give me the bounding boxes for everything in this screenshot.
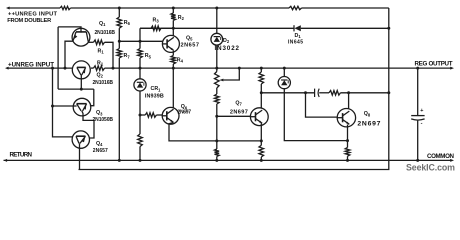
- svg-text:D1: D1: [295, 33, 302, 39]
- svg-text:IN939B: IN939B: [145, 93, 164, 99]
- label Q2 type: [93, 80, 114, 86]
- label CR1 type: [145, 93, 164, 99]
- wire D2 bottom lead: [216, 46, 218, 69]
- transistor Q3: [73, 98, 91, 116]
- junction Q2/Q3 base tie: [80, 88, 83, 91]
- wire R1 upper to junction: [105, 42, 114, 68]
- svg-text:D2: D2: [223, 38, 230, 44]
- junction V3 Q3 base: [51, 105, 54, 108]
- capacitor (comp) symbol: [315, 89, 320, 97]
- wire R5 from rail2: [139, 28, 141, 48]
- wire R4 bottom: [172, 64, 174, 68]
- junction R7 bottom: [118, 159, 121, 162]
- junction CR1 resistor bottom: [139, 159, 142, 162]
- label CR1: [151, 86, 162, 92]
- junction R2 top: [172, 7, 175, 10]
- label Q7: [235, 100, 242, 106]
- junction R1s: [112, 67, 115, 70]
- resistor R9 (unlabeled): [215, 94, 220, 104]
- label Q3 type: [93, 117, 114, 123]
- resistor R3: [151, 26, 161, 31]
- svg-text:R1: R1: [97, 60, 104, 66]
- wire R8 top lead: [216, 68, 218, 71]
- junction Q8 emitter / D3 line: [346, 139, 349, 142]
- wire Q2 base down: [80, 75, 82, 90]
- junction R8 wiper tie: [238, 67, 241, 70]
- svg-text:RETURN: RETURN: [10, 151, 33, 158]
- wire Q7 emitter resistor top: [260, 141, 262, 145]
- junction comp line left: [260, 91, 263, 94]
- label ++unreg input: [8, 11, 58, 17]
- zener D2: [211, 33, 223, 45]
- resistor R6: [117, 17, 122, 28]
- wire R10 bottom: [216, 156, 218, 160]
- label return: [10, 151, 33, 158]
- wire D3 top lead: [283, 68, 285, 76]
- wire Q7 base line: [217, 115, 251, 117]
- transistor Q8: [337, 109, 355, 127]
- junction R5/CR1: [139, 67, 142, 70]
- wire Q7 emitter: [260, 123, 262, 141]
- label R3: [153, 18, 160, 24]
- junction R6 top: [118, 7, 121, 10]
- wire Q2 emitter to R1: [91, 67, 94, 69]
- zener D3 (unlabeled): [278, 77, 290, 89]
- junction D2/R8: [215, 67, 218, 70]
- label Q7 type: [230, 109, 248, 115]
- svg-text:2N697: 2N697: [230, 109, 248, 115]
- wire R3 left: [140, 27, 151, 29]
- capacitor (output) plates: [411, 116, 424, 121]
- transistor Q5: [162, 35, 179, 52]
- transistor Q7: [250, 108, 268, 126]
- wire R5 to reg rail: [139, 58, 141, 68]
- svg-text:++UNREG INPUT: ++UNREG INPUT: [8, 11, 58, 17]
- wire return rail: [4, 159, 452, 161]
- svg-text:R2: R2: [178, 15, 185, 21]
- diode D1 symbol: [294, 25, 301, 31]
- arrowhead return left: [4, 159, 8, 162]
- svg-text:+: +: [420, 108, 423, 114]
- svg-text:Q8: Q8: [364, 111, 371, 117]
- resistor (unlabeled) Q8 emitter: [345, 148, 350, 157]
- wire R6 top: [118, 8, 120, 17]
- arrowhead ++unreg input: [6, 7, 10, 10]
- label Q8: [364, 111, 371, 117]
- svg-text:Q4: Q4: [96, 141, 103, 147]
- wire comp resistor to Q8 collector: [341, 92, 389, 94]
- wire CR1 top lead: [139, 68, 141, 79]
- wire comp cap to resistor: [319, 92, 329, 94]
- wire Q1 emitter to V2: [65, 41, 73, 68]
- wire Q6 collector: [172, 68, 174, 108]
- label R7: [124, 53, 131, 59]
- svg-text:2N657: 2N657: [93, 148, 108, 154]
- svg-text:2N1016B: 2N1016B: [93, 80, 114, 86]
- wire +unreg input: [8, 67, 73, 69]
- label from doubler: [7, 18, 51, 24]
- junction rail2 right corner: [387, 27, 390, 30]
- wire Q8 emitter: [347, 125, 349, 141]
- junction Q8 collector: [347, 91, 350, 94]
- svg-text:R5: R5: [145, 53, 152, 59]
- wire V1: [57, 27, 59, 89]
- svg-text:SeekIC.com: SeekIC.com: [406, 163, 455, 173]
- label reg output: [415, 60, 453, 67]
- wire divider down: [216, 116, 218, 149]
- junction CR1 / Q6 base / resistor: [139, 114, 142, 117]
- resistor R2: [171, 13, 176, 20]
- resistor (unlabeled) comp: [329, 91, 341, 96]
- transistor Q6: [162, 107, 179, 124]
- junction Q6 emitter / R column: [215, 139, 218, 142]
- label Q1 type: [95, 30, 116, 36]
- wire R8 to R9: [216, 88, 218, 94]
- wire R6 to base node: [118, 28, 120, 41]
- wire output cap bottom lead: [417, 121, 419, 161]
- wire comp line left: [261, 92, 314, 94]
- junction Q5 collector / R2: [172, 27, 175, 30]
- svg-text:Q3: Q3: [96, 110, 103, 116]
- label Q5: [186, 35, 193, 41]
- label Q6: [181, 104, 188, 110]
- transistor Q1: [72, 28, 90, 46]
- label R6: [124, 20, 131, 26]
- junction Q6 emitter / Q7 emitter: [260, 139, 263, 142]
- wire CR1 bottom lead: [139, 91, 141, 115]
- junction output capacitor top: [416, 67, 419, 70]
- label R4: [177, 57, 184, 63]
- label D1 type: [288, 40, 303, 46]
- wire Q1 collector to R1 upper: [88, 41, 93, 43]
- svg-text:IN645: IN645: [288, 40, 303, 46]
- resistor R7: [117, 49, 122, 59]
- resistor R1 (upper): [94, 40, 105, 45]
- resistor R4: [171, 55, 176, 64]
- junction R4/Q6 collector: [172, 67, 175, 70]
- transistor Q2: [72, 61, 90, 79]
- junction Q1 collector tie: [64, 67, 67, 70]
- svg-text:R6: R6: [124, 20, 131, 26]
- svg-text:REG OUTPUT: REG OUTPUT: [415, 60, 453, 67]
- wire Q8 collector lead: [348, 93, 350, 109]
- resistor R10 (unlabeled): [215, 149, 220, 156]
- resistor R1 (lower): [94, 66, 105, 71]
- capacitor minus mark: [421, 121, 423, 127]
- junction D2 top: [215, 7, 218, 10]
- wire Q7 collector resistor top: [260, 68, 262, 72]
- wire Q5 collector: [172, 28, 174, 36]
- wire Q6 base resistor left: [140, 114, 145, 116]
- wire top rail middle: [71, 7, 290, 9]
- resistor (unlabeled) Q7 emitter: [259, 145, 264, 157]
- junction Q7 emitter resistor bottom: [260, 159, 263, 162]
- label Q4 type: [93, 148, 108, 154]
- label Q6 type: [178, 109, 192, 115]
- svg-text:Q1: Q1: [99, 21, 106, 27]
- wire rail2 left: [140, 27, 294, 29]
- wire D3 bottom lead: [284, 89, 347, 141]
- label D2 type: [215, 45, 240, 52]
- wire Q4 emitter down to bottom loop: [79, 143, 81, 169]
- wire R3 right: [161, 27, 173, 29]
- wire ++unreg input top rail left: [9, 7, 60, 9]
- wire Q7 emitter resistor bottom: [260, 157, 262, 160]
- wire Q8 base: [306, 93, 338, 117]
- wire Q3 collector: [90, 89, 94, 106]
- wire rail2 right: [301, 27, 389, 29]
- wire R2 top: [172, 8, 174, 13]
- svg-text:IN3022: IN3022: [215, 45, 240, 52]
- resistor (unlabeled) top rail left: [60, 6, 71, 9]
- wire Q3 base from V3: [53, 105, 77, 107]
- wire Q8 emitter resistor top: [347, 141, 349, 148]
- svg-text:Q7: Q7: [235, 100, 242, 106]
- wire Q7 collector resistor bottom: [260, 84, 262, 93]
- wire R9 to Q7 base node: [216, 104, 218, 116]
- svg-text:+UNREG INPUT: +UNREG INPUT: [8, 61, 54, 68]
- svg-text:2N697: 2N697: [357, 120, 380, 127]
- junction R5 top tap: [139, 40, 142, 43]
- wire Q3 emitter to Q4 collector: [82, 111, 94, 138]
- svg-text:R3: R3: [153, 18, 160, 24]
- label Q3: [96, 110, 103, 116]
- capacitor plus mark: [420, 108, 423, 114]
- label Q8 type: [357, 120, 380, 127]
- resistor (unlabeled) Q6 base: [145, 113, 156, 118]
- svg-text:2N1050B: 2N1050B: [93, 117, 114, 123]
- label Q1: [99, 21, 106, 27]
- label R2: [178, 15, 185, 21]
- label D1: [295, 33, 302, 39]
- svg-text:R4: R4: [177, 57, 184, 63]
- label common: [427, 153, 455, 160]
- wire Q8 emitter resistor bottom: [347, 156, 349, 160]
- resistor (unlabeled) CR1 column: [138, 134, 143, 147]
- junction Q7 collector resistor: [260, 67, 263, 70]
- wire reg output rail: [105, 67, 452, 69]
- wire Q6 emitter: [169, 122, 261, 140]
- svg-text:R1: R1: [98, 49, 105, 55]
- label Q5 type: [181, 42, 200, 48]
- wire top rail right: [302, 7, 389, 9]
- zener CR1: [134, 79, 146, 91]
- arrowhead reg output: [450, 67, 454, 70]
- resistor R5: [138, 49, 143, 59]
- svg-text:2N697: 2N697: [178, 109, 192, 115]
- svg-text:Q5: Q5: [186, 35, 193, 41]
- arrowhead +unreg input: [5, 67, 9, 70]
- junction R6/R7/Q5 base: [118, 40, 121, 43]
- wire output cap top lead: [417, 68, 419, 115]
- wire V3: [53, 68, 73, 137]
- wire Q1 base from V1: [58, 27, 81, 33]
- wire Q5 base line: [119, 40, 162, 42]
- junction R10 bottom: [215, 159, 218, 162]
- svg-text:2N1016B: 2N1016B: [95, 30, 116, 36]
- label D2: [223, 38, 230, 44]
- wire Q5 emitter to R4: [172, 51, 174, 56]
- wire R2 bottom: [172, 20, 174, 28]
- wire Q6 base right: [156, 114, 162, 116]
- transistor Q4: [72, 131, 89, 148]
- junction V3 top: [51, 67, 54, 70]
- svg-text:2N657: 2N657: [181, 42, 200, 48]
- label R1 lower: [97, 60, 104, 66]
- wire R7 top: [118, 41, 120, 48]
- wire R7 to return: [118, 58, 120, 160]
- label Q4: [96, 141, 103, 147]
- wire base tie line: [58, 88, 94, 90]
- junction Q8 base column: [304, 91, 307, 94]
- junction output capacitor bottom: [416, 159, 419, 162]
- wire D2 top lead: [216, 8, 218, 34]
- svg-text:R7: R7: [124, 53, 131, 59]
- junction Q7 base tap: [215, 115, 218, 118]
- junction Q8 emitter resistor bottom: [346, 159, 349, 162]
- svg-text:-: -: [421, 121, 423, 127]
- watermark seekic: [406, 163, 455, 173]
- svg-text:COMMON: COMMON: [427, 153, 455, 160]
- wire Q7 collector: [260, 93, 262, 109]
- resistor (unlabeled) top rail right: [289, 6, 302, 9]
- junction comp line at right vertical: [387, 91, 390, 94]
- label Q2: [97, 73, 104, 79]
- svg-text:CR1: CR1: [151, 86, 162, 92]
- potentiometer R8: [215, 68, 240, 88]
- svg-text:FROM DOUBLER: FROM DOUBLER: [7, 18, 51, 24]
- svg-text:Q2: Q2: [97, 73, 104, 79]
- wire right vertical: [79, 8, 389, 170]
- wire resistor below CR1 bottom: [139, 147, 141, 161]
- junction zener D3 top: [283, 67, 286, 70]
- wire resistor below CR1 top: [139, 115, 141, 134]
- arrowhead common right: [450, 159, 454, 162]
- label +unreg input: [8, 61, 54, 68]
- label R1 upper: [98, 49, 105, 55]
- resistor (unlabeled) Q7 collector: [259, 72, 264, 84]
- label R5: [145, 53, 152, 59]
